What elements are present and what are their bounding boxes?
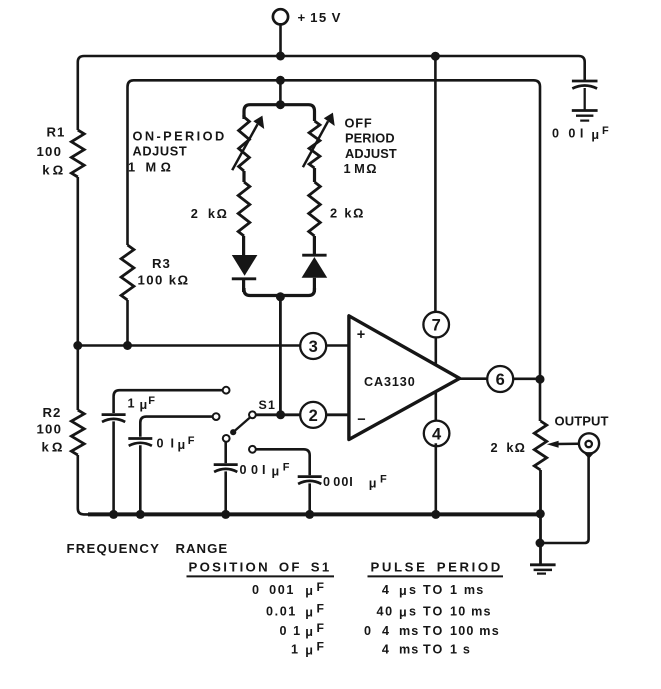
svg-text:000IμF: 000IμF bbox=[323, 474, 387, 491]
svg-text:00IμF: 00IμF bbox=[552, 125, 609, 142]
wire left rail R1-R2 bbox=[77, 177, 80, 410]
wire pin7 inside stub bbox=[434, 337, 437, 365]
wire apex to pin6 bbox=[460, 377, 488, 380]
wire pot-bracket riser bbox=[279, 80, 282, 104]
wire pot to 2k right bbox=[313, 168, 316, 182]
svg-text:4: 4 bbox=[382, 642, 391, 656]
wire pot bracket bottom bbox=[244, 288, 315, 296]
junction pot bottom / ground rail bbox=[536, 509, 545, 518]
svg-text:TO: TO bbox=[423, 624, 444, 638]
svg-text:0001: 0001 bbox=[252, 583, 295, 597]
wire 2k to diode right bbox=[313, 236, 316, 255]
svg-text:0.01: 0.01 bbox=[266, 604, 297, 618]
wire contact4 to C 0.001uF bbox=[256, 449, 310, 475]
svg-text:PULSE PERIOD: PULSE PERIOD bbox=[371, 560, 503, 575]
svg-text:ms: ms bbox=[399, 642, 419, 656]
resistor R3 100k bbox=[121, 245, 134, 300]
junction feedback rail / pot bracket bbox=[276, 76, 285, 85]
wire diode node to pin2 bbox=[279, 296, 282, 415]
svg-text:FREQUENCY: FREQUENCY bbox=[67, 541, 161, 556]
wire left pot branch top bbox=[242, 115, 245, 119]
wire pin4 inside stub bbox=[434, 391, 437, 421]
resistor 2k right bbox=[309, 182, 321, 236]
power terminal +15 V bbox=[273, 9, 288, 24]
pot arrow ON bbox=[232, 124, 257, 170]
svg-text:POSITION OF S1: POSITION OF S1 bbox=[189, 560, 332, 575]
junction +15V rail / pin7 lead bbox=[431, 52, 440, 61]
wire diode left to bracket bbox=[242, 279, 245, 292]
switch contact 3 bbox=[223, 435, 230, 442]
wire pot to ground bbox=[539, 470, 542, 565]
junction return / ground lead bbox=[536, 539, 545, 548]
junction diode node / pin2 wire bbox=[276, 410, 285, 419]
svg-text:ADJUST: ADJUST bbox=[345, 146, 397, 161]
junction left rail / pin3 wire bbox=[73, 341, 82, 350]
svg-text:TO: TO bbox=[423, 583, 444, 597]
switch S1 arm bbox=[234, 418, 250, 432]
svg-text:μ: μ bbox=[399, 605, 407, 619]
resistor R2 100k bbox=[71, 410, 84, 455]
junction pin4 / ground rail bbox=[431, 510, 440, 519]
svg-text:3: 3 bbox=[309, 338, 318, 356]
svg-text:10 ms: 10 ms bbox=[450, 604, 492, 618]
wire C 0.001uF to ground rail bbox=[308, 483, 311, 514]
svg-text:2kΩ: 2kΩ bbox=[191, 206, 228, 221]
svg-text:F: F bbox=[317, 580, 324, 594]
wire diode right to bracket bbox=[313, 278, 316, 292]
svg-text:01: 01 bbox=[280, 624, 302, 638]
svg-text:1MΩ: 1MΩ bbox=[128, 160, 172, 175]
junction C2 / ground rail bbox=[136, 510, 145, 519]
output wiper arrow bbox=[557, 442, 578, 445]
svg-text:R3: R3 bbox=[152, 256, 171, 271]
svg-text:−: − bbox=[357, 412, 365, 428]
wire contact1 to C 1uF bbox=[114, 390, 223, 413]
svg-text:7: 7 bbox=[432, 317, 441, 335]
junction bracket bottom bbox=[276, 292, 285, 301]
resistor 2k left bbox=[238, 182, 250, 236]
svg-text:2kΩ: 2kΩ bbox=[330, 206, 365, 221]
ground symbol decoupling bbox=[572, 109, 598, 112]
wire left rail bottom corner bbox=[78, 455, 90, 514]
svg-text:1MΩ: 1MΩ bbox=[344, 161, 378, 176]
junction bracket top bbox=[276, 100, 285, 109]
wire pot bracket top bbox=[244, 105, 315, 121]
wire R3 to pin3 rail bbox=[126, 300, 129, 346]
svg-text:4: 4 bbox=[382, 583, 391, 597]
wire pin6 to output node bbox=[513, 377, 540, 380]
wire pin2 to op-amp bbox=[326, 413, 349, 416]
svg-text:TO: TO bbox=[423, 642, 444, 656]
svg-text:F: F bbox=[317, 621, 324, 635]
diode CR2 (up) bbox=[302, 254, 326, 257]
svg-text:1: 1 bbox=[291, 642, 300, 656]
svg-text:2kΩ: 2kΩ bbox=[491, 440, 527, 455]
svg-text:6: 6 bbox=[496, 371, 505, 389]
svg-text:4: 4 bbox=[432, 425, 442, 443]
junction C3 / ground rail bbox=[221, 510, 230, 519]
svg-text:2: 2 bbox=[309, 407, 318, 425]
svg-text:1 s: 1 s bbox=[450, 642, 471, 656]
junction C4 / ground rail bbox=[305, 510, 314, 519]
switch contact 2 bbox=[213, 413, 220, 420]
pin circle 3 bbox=[300, 333, 326, 359]
junction C1 / ground rail bbox=[109, 510, 118, 519]
wire feedback rail bbox=[128, 80, 541, 421]
wire pin3 net bbox=[78, 344, 301, 347]
op-amp U1 CA3130 bbox=[349, 316, 460, 440]
switch contact 1 bbox=[223, 387, 230, 394]
svg-text:μ: μ bbox=[305, 605, 313, 619]
capacitor 0.001uF bbox=[298, 475, 322, 478]
svg-text:F: F bbox=[317, 602, 324, 616]
svg-text:s: s bbox=[409, 583, 416, 597]
svg-text:ON-PERIOD: ON-PERIOD bbox=[133, 129, 227, 144]
svg-text:1 ms: 1 ms bbox=[450, 583, 485, 597]
wire pin3 to op-amp bbox=[326, 344, 349, 347]
svg-text:0IμF: 0IμF bbox=[157, 435, 195, 452]
wire output terminal return bbox=[540, 454, 589, 543]
svg-text:100: 100 bbox=[37, 144, 63, 159]
wire C 1uF to ground rail bbox=[112, 421, 115, 514]
svg-text:μ: μ bbox=[305, 643, 313, 657]
pin circle 2 bbox=[300, 402, 326, 428]
pot arrow OFF bbox=[303, 121, 328, 167]
svg-text:CA3130: CA3130 bbox=[364, 375, 416, 389]
wire 2k to diode left bbox=[242, 236, 245, 255]
potentiometer OFF-PERIOD 1M bbox=[309, 121, 320, 168]
switch contact 4 bbox=[249, 446, 256, 453]
wire C 0.1uF to ground rail bbox=[139, 445, 142, 514]
svg-text:μ: μ bbox=[399, 584, 407, 598]
svg-text:100 kΩ: 100 kΩ bbox=[138, 273, 190, 288]
junction +15V rail / supply lead bbox=[276, 52, 285, 61]
svg-text:ms: ms bbox=[399, 624, 419, 638]
capacitor 0.01uF decoupling bbox=[572, 80, 598, 83]
svg-text:TO: TO bbox=[423, 604, 444, 618]
svg-text:R2: R2 bbox=[43, 405, 62, 420]
wire C 0.01uF to ground rail bbox=[224, 471, 227, 514]
svg-text:100 ms: 100 ms bbox=[450, 624, 500, 638]
capacitor 1uF bbox=[102, 413, 126, 416]
potentiometer ON-PERIOD 1M bbox=[239, 117, 250, 171]
wire top +15V rail bbox=[78, 56, 585, 130]
wire pole to pin2 node bbox=[256, 413, 301, 416]
svg-text:OFF: OFF bbox=[345, 116, 373, 131]
junction pin6 / right rail bbox=[536, 375, 545, 384]
wire ground rail bbox=[88, 512, 540, 516]
pin circle 6 bbox=[487, 366, 513, 392]
svg-text:04: 04 bbox=[364, 624, 389, 638]
pin circle 4 bbox=[424, 421, 450, 447]
pin circle 7 bbox=[423, 312, 449, 338]
svg-text:PERIOD: PERIOD bbox=[345, 131, 395, 146]
svg-text:1μF: 1μF bbox=[128, 395, 156, 412]
svg-text:00IμF: 00IμF bbox=[240, 462, 290, 479]
resistor R1 100k bbox=[71, 130, 84, 177]
output terminal bbox=[579, 433, 599, 453]
capacitor 0.1uF bbox=[128, 437, 152, 440]
svg-text:s: s bbox=[409, 604, 416, 618]
svg-text:F: F bbox=[317, 640, 324, 654]
svg-text:μ: μ bbox=[305, 584, 313, 598]
svg-text:R1: R1 bbox=[47, 125, 66, 140]
svg-text:kΩ: kΩ bbox=[42, 163, 66, 178]
svg-text:RANGE: RANGE bbox=[176, 541, 229, 556]
svg-text:40: 40 bbox=[376, 604, 393, 618]
junction R3 / pin3 wire bbox=[123, 341, 132, 350]
wire pin7 lead bbox=[434, 56, 437, 312]
svg-text:μ: μ bbox=[305, 625, 313, 639]
svg-text:100: 100 bbox=[37, 422, 63, 437]
svg-text:ADJUST: ADJUST bbox=[133, 144, 188, 159]
svg-text:kΩ: kΩ bbox=[42, 440, 66, 455]
diode CR1 (down) bbox=[232, 255, 258, 276]
wire contact3 to C 0.01uF bbox=[224, 442, 227, 463]
capacitor 0.01uF bbox=[214, 463, 238, 466]
svg-text:+: + bbox=[357, 327, 365, 343]
wire pot to 2k left bbox=[242, 171, 245, 182]
wire pin4 to ground rail bbox=[434, 443, 437, 514]
ground symbol output bbox=[530, 563, 556, 566]
potentiometer 2k output bbox=[534, 421, 546, 470]
wire contact2 to C 0.1uF bbox=[140, 417, 212, 437]
svg-text:+15V: +15V bbox=[298, 10, 342, 25]
switch S1 pole bbox=[249, 411, 256, 418]
svg-text:OUTPUT: OUTPUT bbox=[555, 413, 609, 428]
svg-text:S1: S1 bbox=[259, 398, 277, 412]
